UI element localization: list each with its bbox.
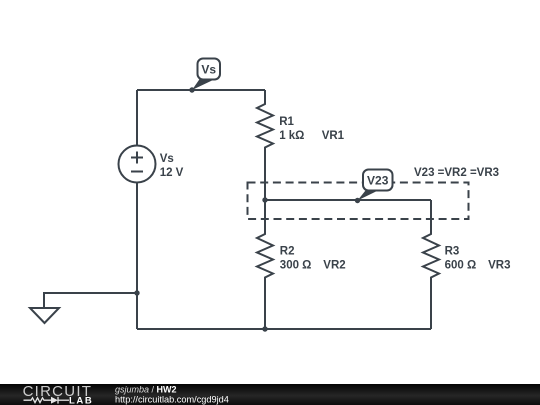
svg-text:V23: V23 [367, 174, 389, 188]
svg-text:300 Ω: 300 Ω [280, 259, 312, 271]
wire left branch upper [136, 90, 138, 146]
logo resistor zigzag and diode [24, 397, 70, 404]
dashed annotation box [248, 183, 469, 220]
svg-text:LAB: LAB [69, 396, 93, 405]
flag Vs pointer [192, 79, 212, 91]
wire bottom rail [137, 328, 431, 330]
resistor R1 [257, 90, 273, 200]
junction node middle rail left [262, 197, 267, 202]
svg-text:600 Ω: 600 Ω [445, 259, 477, 271]
flag V23 pointer [358, 191, 378, 201]
svg-text:R1: R1 [279, 116, 294, 128]
svg-text:VR3: VR3 [488, 259, 510, 271]
svg-text:V23 =VR2 =VR3: V23 =VR2 =VR3 [414, 167, 499, 179]
junction node bottom rail [262, 326, 267, 331]
svg-text:VR2: VR2 [323, 259, 345, 271]
wire ground stub [44, 293, 137, 308]
wire middle rail [265, 199, 431, 201]
svg-text:R2: R2 [280, 246, 295, 258]
svg-text:R3: R3 [445, 246, 460, 258]
svg-text:Vs: Vs [160, 153, 174, 165]
footer bar [0, 384, 540, 405]
resistor R2 [257, 200, 273, 329]
junction node on top rail [189, 87, 194, 92]
junction node probe V23 [355, 198, 360, 203]
junction node ground [134, 290, 139, 295]
ground symbol [30, 308, 59, 323]
svg-text:Vs: Vs [201, 63, 216, 77]
voltage source V1 circle [119, 146, 156, 183]
wire left branch lower [136, 183, 138, 330]
voltage source minus sign [131, 171, 143, 173]
svg-text:http://circuitlab.com/cgd9jd4: http://circuitlab.com/cgd9jd4 [115, 395, 229, 405]
svg-text:gsjumba / HW2: gsjumba / HW2 [115, 385, 177, 395]
wire top rail [137, 89, 265, 91]
voltage source plus sign [131, 152, 143, 164]
svg-text:12 V: 12 V [160, 167, 184, 179]
resistor R3 [423, 200, 439, 329]
svg-text:1 kΩ: 1 kΩ [279, 130, 304, 142]
flag Vs box [198, 59, 221, 80]
flag V23 box [363, 170, 393, 191]
svg-text:VR1: VR1 [322, 130, 345, 142]
